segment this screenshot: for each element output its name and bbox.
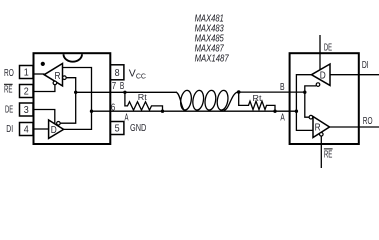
svg-text:GND: GND	[130, 123, 146, 134]
svg-text:DE: DE	[5, 104, 13, 115]
wire D2 inv output to B vertical	[305, 86, 316, 117]
svg-text:B: B	[120, 81, 125, 92]
svg-text:R: R	[55, 71, 61, 82]
wire DE to D enable	[34, 110, 55, 124]
wire D2 apex to A vertical	[296, 75, 313, 131]
svg-text:D: D	[320, 71, 326, 82]
svg-text:DI: DI	[362, 60, 369, 71]
wire B line (pin 7)	[76, 91, 177, 93]
svg-text:8: 8	[115, 67, 120, 79]
wire DI	[330, 74, 379, 76]
wire RE to R enable	[34, 85, 55, 92]
pin 5 box	[110, 122, 124, 135]
svg-text:3: 3	[24, 104, 29, 116]
pin 8 box	[110, 65, 124, 80]
pin 3 box	[20, 103, 34, 116]
resistor Rt (right termination)	[239, 92, 275, 111]
svg-text:RE: RE	[4, 85, 13, 96]
R enable bubble	[53, 81, 57, 85]
wire DI to D input	[34, 128, 49, 130]
receiver R1 triangle	[44, 64, 62, 86]
RE overline right	[324, 148, 333, 150]
twist loop 4	[216, 90, 229, 111]
R2 inverting input bubble	[309, 115, 313, 119]
IC U1 body (left transceiver DIP-8)	[34, 53, 111, 144]
svg-text:DE: DE	[324, 42, 332, 53]
R2 enable bubble	[320, 133, 324, 137]
wire RO to R apex	[34, 73, 45, 75]
wire DE stub top	[319, 35, 321, 70]
node B junction dot inside U2	[303, 91, 306, 94]
wire exit cross	[224, 92, 239, 111]
pin 2 box	[20, 85, 34, 98]
junction dot left Rt to A	[161, 110, 164, 113]
pin-1 dot	[41, 62, 45, 66]
svg-text:RO: RO	[363, 116, 373, 127]
svg-text:Rt: Rt	[253, 93, 263, 103]
resistor Rt (left termination)	[125, 92, 163, 111]
chip label MAX481/483/485/487/1487	[195, 13, 230, 65]
svg-text:Rt: Rt	[138, 92, 148, 102]
IC U2 body (right transceiver)	[290, 53, 359, 144]
driver D2 triangle	[312, 64, 331, 85]
wire RE stub bottom	[320, 136, 322, 168]
D inverting output bubble	[57, 122, 61, 126]
node B junction dot inside U1	[74, 91, 77, 94]
svg-text:5: 5	[115, 123, 120, 135]
junction dot B to left Rt	[123, 91, 126, 94]
D2 inverting output bubble	[316, 83, 320, 87]
wire B right segment	[239, 91, 305, 93]
wire R input to A vertical	[63, 68, 92, 130]
twist loop 2	[192, 90, 205, 111]
twisted pair cable	[176, 90, 239, 111]
svg-text:1: 1	[24, 67, 29, 79]
svg-text:RO: RO	[4, 68, 14, 79]
wire R inv input to B vertical	[60, 78, 75, 124]
svg-text:R: R	[315, 122, 321, 133]
twist loop 3	[204, 90, 217, 111]
twist loop 1	[179, 90, 192, 111]
svg-text:2: 2	[24, 86, 29, 98]
wire A line (pin 6)	[92, 110, 297, 112]
R inverting input bubble	[63, 76, 67, 80]
svg-text:MAX1487: MAX1487	[195, 53, 230, 65]
junction dot B to right Rt	[237, 90, 241, 94]
svg-text:DI: DI	[6, 124, 13, 135]
wire entry cross	[176, 92, 184, 110]
svg-text:A: A	[125, 113, 129, 124]
pin 4 box	[20, 123, 34, 136]
node A junction dot inside U1	[90, 110, 93, 113]
RE overline	[4, 83, 13, 85]
driver D1 triangle	[49, 120, 64, 138]
svg-text:B: B	[280, 82, 285, 93]
svg-text:6: 6	[111, 102, 116, 113]
receiver R2 triangle	[313, 117, 330, 138]
notch	[64, 54, 83, 61]
junction dot right Rt to A	[273, 110, 276, 113]
svg-text:4: 4	[24, 124, 29, 136]
svg-text:D: D	[51, 125, 57, 136]
svg-text:A: A	[280, 113, 285, 124]
wire RO right	[330, 126, 379, 128]
svg-text:RE: RE	[324, 149, 333, 160]
pin 1 box	[20, 66, 34, 79]
svg-text:7: 7	[112, 81, 117, 92]
node A junction dot inside U2	[295, 110, 298, 113]
